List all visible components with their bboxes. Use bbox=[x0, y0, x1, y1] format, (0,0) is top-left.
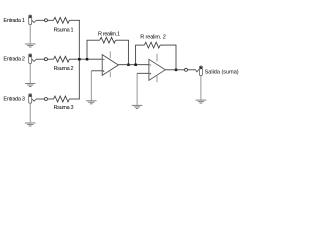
svg-text:Rsuma 3: Rsuma 3 bbox=[54, 105, 74, 111]
connector J1 (jack Entrada 1) bbox=[29, 15, 32, 25]
svg-text:Rsuma 2: Rsuma 2 bbox=[54, 66, 74, 72]
J2 sleeve stem wire bbox=[29, 64, 31, 84]
U1 positive supply pin bbox=[109, 51, 111, 58]
resistor R realim. 2 bbox=[144, 42, 160, 48]
wire node to Rsuma1 bbox=[47, 19, 53, 21]
resistor R realim.1 bbox=[100, 37, 116, 43]
junction feedback1/input bbox=[86, 58, 89, 61]
J3 sleeve stem wire bbox=[29, 103, 31, 123]
connector J2 (jack Entrada 2) bbox=[29, 54, 32, 64]
svg-text:R realim.1: R realim.1 bbox=[98, 31, 120, 37]
wire feedback1 top right bbox=[116, 39, 129, 41]
junction feedback2/input bbox=[134, 64, 137, 67]
wire J2 to node bbox=[37, 58, 45, 60]
svg-text:Entrada 3: Entrada 3 bbox=[3, 96, 25, 102]
wire Rsuma2 to op-amp U1 inverting input bbox=[69, 58, 102, 60]
svg-text:Entrada 1: Entrada 1 bbox=[3, 18, 25, 24]
node terminal row1 bbox=[44, 19, 47, 22]
wire Rsuma3 to bus bbox=[69, 98, 79, 100]
svg-text:Rsuma 1: Rsuma 1 bbox=[54, 27, 74, 33]
J1 tip contact bbox=[32, 20, 37, 23]
U2 negative supply pin bbox=[156, 76, 158, 82]
U2 plus mark bbox=[150, 73, 152, 75]
op-amp U2 triangle bbox=[149, 59, 165, 80]
wire feedback1 left vertical bbox=[86, 40, 88, 59]
wire feedback2 right vertical bbox=[175, 45, 177, 70]
junction feedback2/output bbox=[175, 69, 178, 72]
ground GND6 bbox=[196, 100, 207, 103]
op-amp U1 triangle bbox=[102, 55, 118, 76]
wire feedback1 top left bbox=[87, 39, 100, 41]
node terminal output bbox=[185, 68, 188, 71]
wire J3 to node bbox=[37, 98, 45, 100]
junction bus/row2 bbox=[78, 58, 81, 61]
connector J4 (jack Salida) bbox=[199, 66, 202, 76]
wire node to output jack bbox=[188, 69, 196, 71]
U1 minus mark bbox=[103, 59, 105, 61]
ground GND4 bbox=[86, 101, 97, 104]
wire Rsuma1 to bus bbox=[69, 19, 79, 21]
wire feedback2 top right bbox=[160, 44, 176, 46]
J3 tip contact bbox=[32, 99, 37, 102]
svg-text:Salida (suma): Salida (suma) bbox=[205, 69, 239, 75]
wire feedback2 left vertical bbox=[135, 45, 137, 65]
resistor Rsuma 2 bbox=[54, 56, 70, 62]
svg-text:R realim. 2: R realim. 2 bbox=[140, 35, 166, 41]
wire feedback1 right vertical bbox=[127, 40, 129, 65]
connector J3 (jack Entrada 3) bbox=[29, 94, 32, 104]
resistor Rsuma 3 bbox=[54, 96, 70, 102]
wire summing bus vertical bbox=[78, 20, 80, 100]
U1 plus mark bbox=[103, 70, 105, 72]
wire U2 output bbox=[165, 69, 184, 71]
U2 minus mark bbox=[150, 64, 152, 66]
wire U1 +in to ground bbox=[90, 71, 92, 101]
resistor Rsuma 1 bbox=[54, 17, 70, 23]
ground GND2 bbox=[25, 84, 36, 87]
ground GND5 bbox=[132, 105, 143, 108]
U1 negative supply pin bbox=[109, 71, 111, 77]
U2 positive supply pin bbox=[156, 54, 158, 62]
wire J1 to node bbox=[37, 19, 45, 21]
node terminal row2 bbox=[44, 58, 47, 61]
J2 tip contact bbox=[32, 59, 37, 62]
ground GND3 bbox=[25, 123, 36, 126]
wire U2 noninverting input bbox=[137, 72, 149, 74]
ground GND1 bbox=[25, 44, 36, 47]
wire feedback2 top left bbox=[135, 44, 144, 46]
wire node to Rsuma2 bbox=[47, 58, 53, 60]
wire U1 noninverting input bbox=[91, 70, 102, 72]
wire node to Rsuma3 bbox=[47, 98, 53, 100]
J4 sleeve stem wire bbox=[200, 76, 202, 100]
J1 sleeve stem wire bbox=[29, 25, 31, 44]
wire U2 +in to ground bbox=[136, 73, 138, 105]
node terminal row3 bbox=[44, 98, 47, 101]
svg-text:Entrada 2: Entrada 2 bbox=[3, 57, 25, 63]
junction feedback1/output bbox=[127, 64, 130, 67]
J4 tip contact bbox=[195, 69, 199, 72]
wire U1 output to U2 bbox=[118, 64, 148, 66]
